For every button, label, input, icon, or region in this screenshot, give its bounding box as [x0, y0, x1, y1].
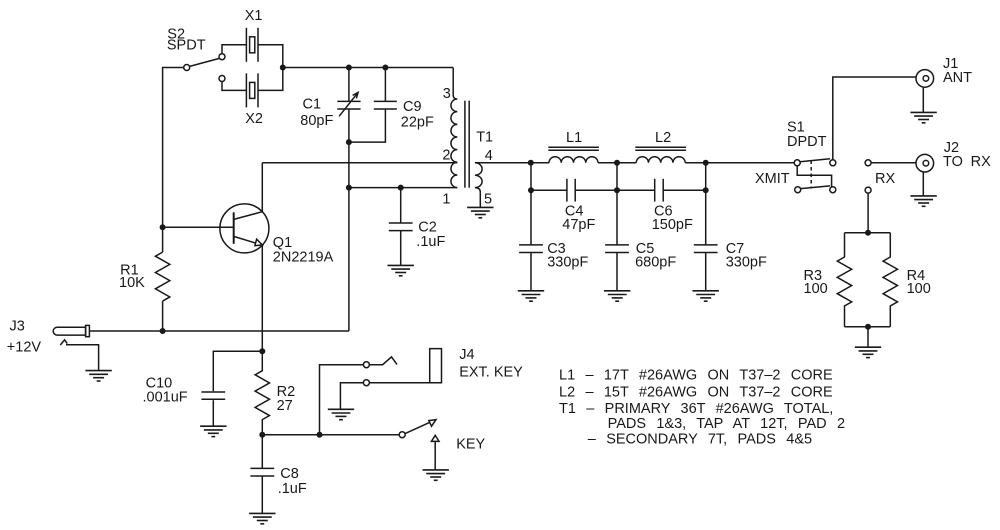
- node C6 right: [703, 187, 709, 193]
- svg-text:.1uF: .1uF: [278, 481, 307, 497]
- svg-text:150pF: 150pF: [652, 217, 693, 233]
- svg-text:J4: J4: [459, 347, 474, 363]
- resistor R2: [255, 351, 269, 434]
- svg-text:L1 – 17T #26AWG ON T37–2 CORE: L1 – 17T #26AWG ON T37–2 CORE: [559, 368, 833, 384]
- node C4 left: [528, 187, 534, 193]
- node L2 right: [703, 160, 709, 166]
- capacitor C7: [694, 163, 718, 291]
- svg-text:C1: C1: [303, 97, 322, 113]
- svg-text:22pF: 22pF: [401, 115, 434, 131]
- node C9 top: [382, 65, 388, 71]
- svg-text:PADS 1&3, TAP AT 12T, PAD 2: PADS 1&3, TAP AT 12T, PAD 2: [608, 416, 845, 432]
- capacitor C6: [617, 179, 706, 202]
- wire RX to R3R4: [867, 193, 869, 233]
- svg-text:XMIT: XMIT: [755, 171, 790, 187]
- connector J4 jack: [363, 349, 441, 386]
- node R3R4 bottom: [865, 324, 871, 330]
- transformer T1 core: [465, 101, 469, 188]
- node R1 bottom: [160, 328, 166, 334]
- capacitor C3: [519, 163, 543, 291]
- ground T1 pin5: [467, 207, 493, 217]
- wire R3R4 top rung: [845, 232, 891, 234]
- svg-text:T1 – PRIMARY 36T #26AWG TOTAL,: T1 – PRIMARY 36T #26AWG TOTAL,: [559, 401, 833, 417]
- connector J1: [916, 70, 934, 113]
- wire filter rail: [531, 162, 794, 164]
- wire J4 tip branch: [320, 365, 364, 435]
- wire top rail: [283, 67, 453, 69]
- svg-text:KEY: KEY: [456, 437, 485, 453]
- ground J1: [910, 112, 936, 122]
- svg-text:L2 – 15T #26AWG ON T37–2 CORE: L2 – 15T #26AWG ON T37–2 CORE: [559, 385, 833, 401]
- svg-text:330pF: 330pF: [547, 255, 588, 271]
- svg-text:80pF: 80pF: [300, 113, 333, 129]
- wire X1 branch: [222, 45, 283, 68]
- svg-text:X2: X2: [245, 111, 263, 127]
- switch S2: [184, 54, 225, 82]
- crystal X2: [246, 73, 258, 107]
- svg-text:47pF: 47pF: [562, 217, 595, 233]
- svg-text:C8: C8: [280, 466, 299, 482]
- wire tank column down to +12V rail: [348, 142, 350, 331]
- wire key line: [262, 434, 399, 436]
- transformer T1 secondary winding: [475, 163, 531, 208]
- capacitor C4: [531, 179, 617, 202]
- wire RX to J2: [871, 162, 916, 164]
- connector J3 plug: [53, 325, 89, 336]
- node L1-L2 junction: [614, 160, 620, 166]
- resistor R1: [155, 252, 169, 301]
- svg-text:EXT. KEY: EXT. KEY: [459, 365, 523, 381]
- transistor Q1: [220, 163, 269, 351]
- svg-text:T1: T1: [476, 130, 493, 146]
- node C1 top: [346, 65, 352, 71]
- wire X2 branch: [222, 68, 283, 91]
- ground C2: [388, 265, 414, 275]
- node C1-C9 bottom junction: [346, 139, 352, 145]
- svg-text:SPDT: SPDT: [167, 37, 206, 53]
- switch S1: [794, 159, 836, 193]
- node crystals-junction: [280, 65, 286, 71]
- capacitor C5: [605, 163, 629, 291]
- wire R3R4 bottom rung: [845, 327, 891, 347]
- connector J2: [916, 154, 934, 196]
- ground C10: [200, 426, 226, 436]
- svg-text:27: 27: [277, 398, 293, 414]
- wire S2 common stub and left rail: [163, 68, 184, 332]
- capacitor C9: [349, 68, 397, 143]
- resistor R3: [837, 233, 851, 327]
- switch RX contacts: [865, 160, 871, 193]
- ground C3: [518, 291, 544, 301]
- ground KEY: [423, 470, 449, 480]
- wire C10 branch: [213, 351, 262, 391]
- svg-text:2: 2: [442, 148, 450, 164]
- svg-text:.001uF: .001uF: [143, 390, 188, 406]
- svg-text:– SECONDARY 7T, PADS 4&5: – SECONDARY 7T, PADS 4&5: [588, 432, 812, 448]
- svg-text:.1uF: .1uF: [416, 234, 445, 250]
- resistor R4: [883, 233, 897, 327]
- svg-text:TO: TO: [943, 154, 963, 170]
- svg-text:L2: L2: [655, 130, 671, 146]
- ground J3: [85, 371, 111, 381]
- node pin1 rail tap: [346, 185, 352, 191]
- wire S1 to J1: [833, 77, 916, 160]
- svg-text:C2: C2: [418, 219, 437, 235]
- wire pin1 line: [349, 187, 457, 189]
- switch KEY: [399, 420, 439, 470]
- capacitor C10: [201, 392, 225, 426]
- svg-text:L1: L1: [566, 130, 582, 146]
- inductor L2: [635, 147, 686, 163]
- ground R3R4: [855, 347, 881, 357]
- node C2 tap: [398, 185, 404, 191]
- svg-text:RX: RX: [971, 154, 991, 170]
- ground C8: [249, 513, 275, 523]
- crystal X1: [246, 28, 258, 62]
- svg-text:ANT: ANT: [943, 70, 972, 86]
- svg-text:+12V: +12V: [7, 339, 42, 355]
- wire J3 sleeve to ground: [60, 340, 98, 371]
- svg-text:3: 3: [443, 86, 451, 102]
- ground C7: [693, 291, 719, 301]
- wire +12V rail: [89, 330, 349, 332]
- node C4-C6 mid: [614, 187, 620, 193]
- ground J2: [910, 196, 936, 206]
- node L1 left: [528, 160, 534, 166]
- svg-text:1: 1: [442, 191, 450, 207]
- svg-text:100: 100: [804, 281, 828, 297]
- wire pin2 line collector to T1: [262, 162, 457, 164]
- node R3R4 top: [865, 230, 871, 236]
- svg-text:4: 4: [485, 148, 493, 164]
- svg-text:RX: RX: [875, 171, 895, 187]
- svg-text:330pF: 330pF: [726, 255, 767, 271]
- svg-text:DPDT: DPDT: [787, 134, 827, 150]
- svg-text:100: 100: [907, 281, 931, 297]
- svg-text:2N2219A: 2N2219A: [273, 250, 334, 266]
- capacitor C8: [250, 435, 274, 514]
- ground J4: [328, 409, 354, 419]
- capacitor C2: [389, 188, 413, 265]
- node R2 bottom: [259, 432, 265, 438]
- capacitor C1 variable: [337, 68, 360, 143]
- transformer T1 primary winding: [451, 68, 457, 188]
- wire base: [163, 226, 234, 228]
- node base junction: [160, 224, 166, 230]
- svg-text:10K: 10K: [119, 275, 145, 291]
- node J4 tap: [317, 432, 323, 438]
- node emitter-C10 junction: [259, 348, 265, 354]
- inductor L1: [548, 147, 599, 163]
- svg-text:J3: J3: [10, 319, 25, 335]
- svg-text:5: 5: [484, 191, 492, 207]
- ground C5: [604, 291, 630, 301]
- svg-text:X1: X1: [245, 8, 263, 24]
- svg-text:680pF: 680pF: [635, 255, 676, 271]
- svg-text:C9: C9: [403, 99, 422, 115]
- wire J4 sleeve to ground: [340, 383, 363, 409]
